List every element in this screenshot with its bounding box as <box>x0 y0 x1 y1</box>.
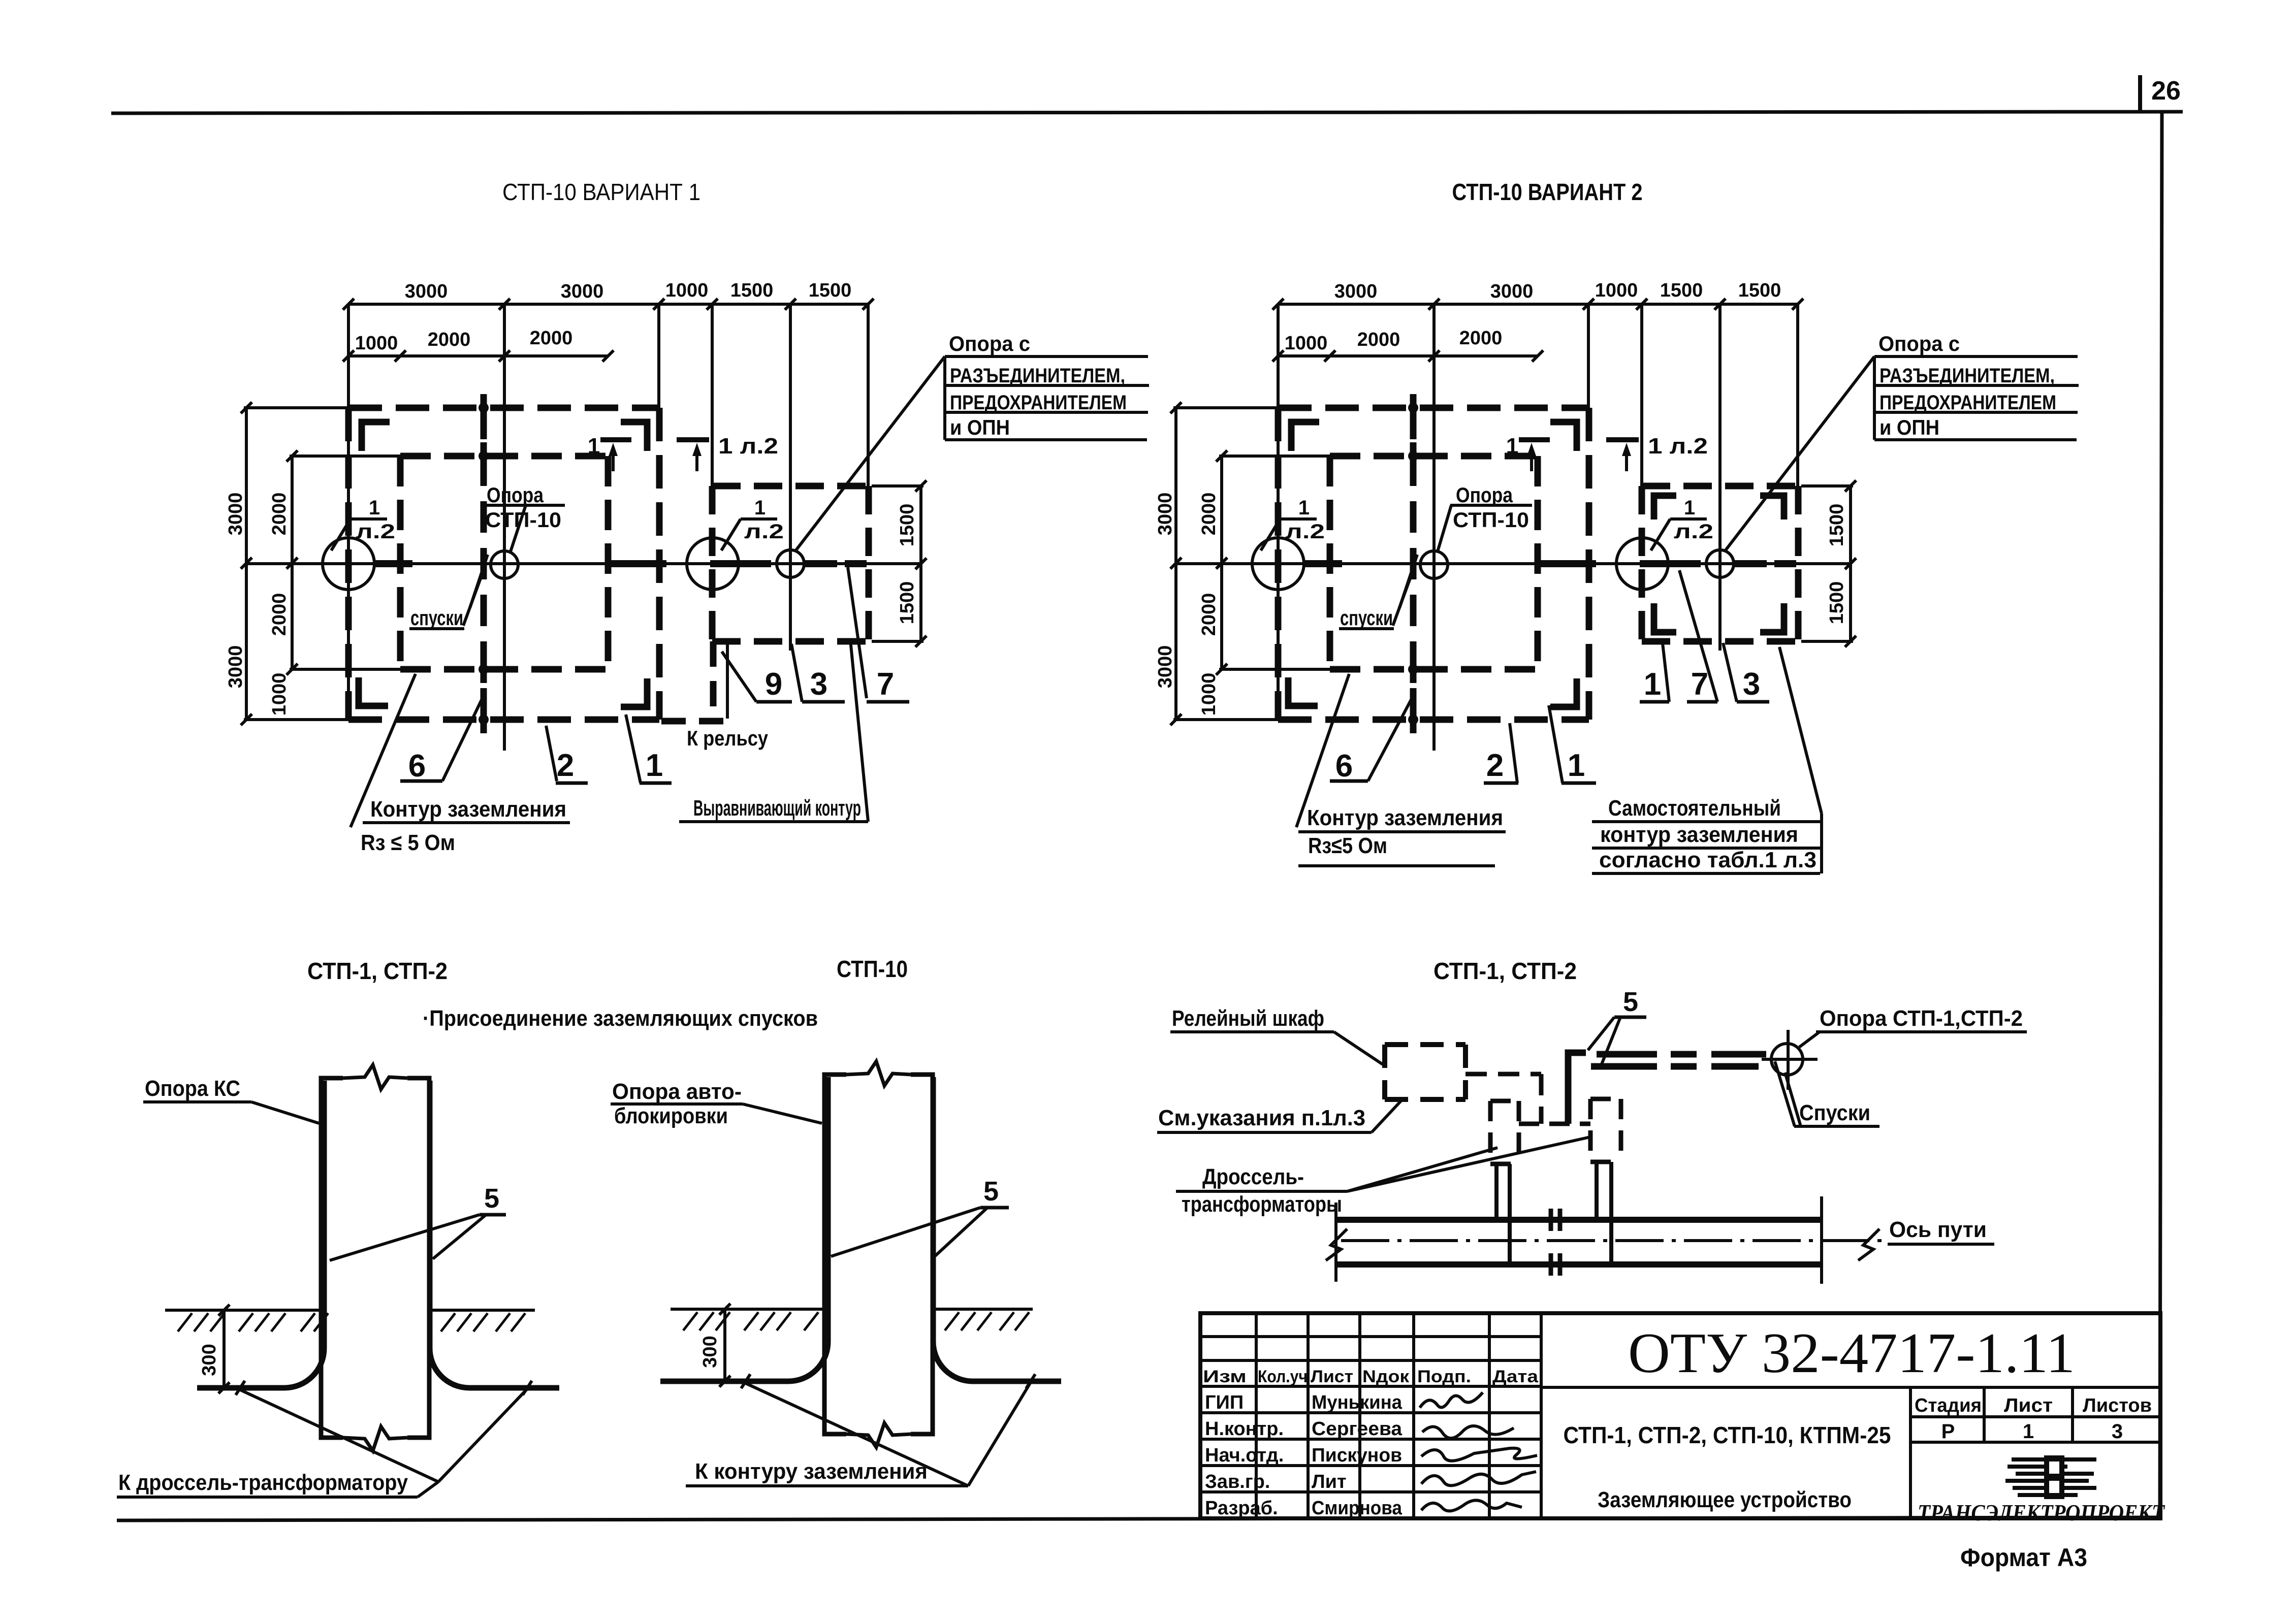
svg-text:1500: 1500 <box>730 280 774 301</box>
svg-text:2000: 2000 <box>1357 329 1400 350</box>
svg-text:1500: 1500 <box>1826 581 1847 625</box>
svg-text:2000: 2000 <box>269 593 290 636</box>
v1 junction dot R2 bottom <box>479 664 489 674</box>
svg-text:Релейный шкаф: Релейный шкаф <box>1172 1006 1324 1031</box>
v1 leader Vyravnivayushchiy kontur <box>850 640 868 822</box>
v1 right dim line 1500/1500 <box>919 486 922 641</box>
left underground conductor + descent wire (left) <box>197 1081 324 1388</box>
leader Drossel a <box>1347 1148 1498 1191</box>
v2 junction dot R2 bottom <box>1408 664 1418 674</box>
v2 underline kontur 2 <box>1592 847 1822 850</box>
svg-text:1000: 1000 <box>1595 280 1638 301</box>
thick dashed conductor run 2 <box>1591 1063 1657 1070</box>
svg-text:Опора: Опора <box>1456 483 1513 507</box>
v1 ext line bottom <box>244 718 358 721</box>
leader Opora KS <box>251 1102 319 1123</box>
svg-text:1: 1 <box>1568 748 1585 783</box>
svg-text:2: 2 <box>1486 748 1504 783</box>
v1 box underline 2 <box>945 384 1149 387</box>
scheme underline 5 <box>1614 1016 1646 1019</box>
v2 underline soglasno <box>1592 872 1820 875</box>
choke transformer box 1 <box>1490 1099 1519 1103</box>
center conductor tick b <box>1026 1374 1035 1388</box>
v1 box left edge <box>943 356 946 440</box>
svg-text:7: 7 <box>877 667 894 702</box>
sheet right border line <box>2160 112 2162 1518</box>
svg-text:1: 1 <box>1506 434 1518 459</box>
v2 underline 7 <box>1687 700 1717 704</box>
v2 center axis line V2 <box>1432 304 1436 751</box>
v1 extension line V4 <box>711 304 714 489</box>
v2 box underline 2 <box>1874 384 2079 387</box>
svg-text:1: 1 <box>646 748 663 783</box>
svg-text:СТП-1, СТП-2: СТП-1, СТП-2 <box>1433 958 1577 984</box>
v2 box right edge <box>1820 814 1823 873</box>
v2 box leader to disconnector pole <box>1725 356 1874 551</box>
v1 box underline 4 <box>945 438 1147 441</box>
v2 thick jumper right of disconnector b <box>1774 560 1796 567</box>
svg-text:2000: 2000 <box>530 328 573 349</box>
underline Opora STP-1 STP-2 <box>1816 1030 2027 1033</box>
pole circle STP-1 STP-2 <box>1771 1044 1803 1075</box>
left pole underline 5 <box>480 1213 506 1217</box>
v2 section mark A bar <box>1519 437 1550 442</box>
v2 underline 3 <box>1737 700 1769 704</box>
svg-text:согласно табл.1 л.3: согласно табл.1 л.3 <box>1599 848 1817 872</box>
thick ground conductor L-corner <box>1568 1053 1586 1124</box>
v2 underline 6 <box>1330 779 1368 783</box>
v2 right ext top <box>1801 484 1853 488</box>
sheet top border line <box>111 112 2183 113</box>
svg-text:и ОПН: и ОПН <box>1879 415 1939 439</box>
svg-text:·Присоединение заземляющих с: ·Присоединение заземляющих спусков <box>423 1006 818 1031</box>
svg-text:Лист: Лист <box>2004 1395 2053 1416</box>
v2 underline 2 <box>1484 782 1518 785</box>
v1 junction dot R1 bottom <box>479 714 489 725</box>
svg-text:Ось пути: Ось пути <box>1889 1217 1987 1242</box>
svg-text:1000: 1000 <box>269 673 290 716</box>
v1 spuski leader b <box>463 569 484 626</box>
title block left table horizontals <box>1200 1335 1541 1338</box>
v2 pole circle STP-10 <box>1420 551 1448 578</box>
svg-text:Изм: Изм <box>1203 1367 1247 1386</box>
v1 box underline 1 <box>945 355 1148 358</box>
svg-text:Мунькина: Мунькина <box>1312 1392 1403 1413</box>
v1 underline 6 <box>400 779 442 783</box>
center ground hatching <box>683 1312 697 1330</box>
v2 underline spuski <box>1339 627 1394 630</box>
v2 extension line V3 <box>1587 304 1590 412</box>
v2 box underline 1 <box>1874 355 2078 358</box>
svg-text:2000: 2000 <box>1198 593 1220 636</box>
v1 right ext bottom <box>872 640 923 643</box>
v1 pole circle STP-10 <box>491 551 518 578</box>
underline Opora KS <box>143 1100 251 1103</box>
v1 leader 1 <box>626 714 641 783</box>
centerline break mark left <box>1326 1229 1347 1260</box>
underline Os puti <box>1888 1243 1994 1246</box>
v1 corner electrode mark top-right <box>621 422 647 451</box>
dashed wire down <box>1539 1074 1544 1124</box>
v1 underline 7 <box>867 700 909 704</box>
v2 dimension line 1000-2000-2000 <box>1278 354 1538 358</box>
title block left table verticals <box>1255 1313 1258 1518</box>
svg-text:Лит: Лит <box>1312 1471 1347 1492</box>
center underground conductor + descent wire (left) <box>660 1077 828 1381</box>
svg-text:СТП-10 ВАРИАНТ 1: СТП-10 ВАРИАНТ 1 <box>502 179 700 205</box>
svg-text:л.2: л.2 <box>356 521 395 543</box>
v1 thick jumper across R2/R1 right edges <box>611 560 666 567</box>
stadiya/list divider 1 <box>1983 1387 1986 1442</box>
v2 junction dot R1 top <box>1408 403 1418 413</box>
leader Sm.ukazaniya <box>1372 1101 1401 1132</box>
v2 right ext bottom <box>1801 640 1853 643</box>
svg-text:Выравнивающий контур: Выравнивающий контур <box>693 796 861 821</box>
svg-text:ПРЕДОХРАНИТЕЛЕМ: ПРЕДОХРАНИТЕЛЕМ <box>1879 392 2056 414</box>
center pole underline 5 <box>980 1206 1009 1210</box>
v2 small-square corner mark TR <box>1760 496 1784 519</box>
v1 section mark A arrow <box>609 443 618 456</box>
svg-text:1: 1 <box>369 497 380 519</box>
svg-text:3: 3 <box>2112 1420 2123 1443</box>
v2 dimension line 3000-3000-1000-1500-1500 <box>1278 303 1798 306</box>
dashed wire from relay box <box>1465 1072 1541 1077</box>
relay cabinet (dashed box) <box>1385 1042 1465 1047</box>
v2 ext line 2000 top <box>1219 454 1331 458</box>
v1 ground descent conductor (spuski) <box>481 408 487 720</box>
v1 pole circle with disconnector <box>777 550 804 577</box>
svg-text:Лист: Лист <box>1311 1367 1353 1386</box>
svg-text:3000: 3000 <box>1155 645 1176 689</box>
v1 section mark B arrow <box>692 443 702 456</box>
v1 ext line 2000 top <box>290 454 401 458</box>
center bottom break mark <box>846 1423 911 1447</box>
v1 small contour square (dashed) <box>712 483 869 490</box>
v2 ext line bottom <box>1173 718 1288 721</box>
v2 ext line 2000 bottom <box>1219 668 1331 671</box>
v2 junction dot R1 bottom <box>1408 714 1418 725</box>
svg-text:Nдок: Nдок <box>1362 1367 1410 1386</box>
svg-text:спуски: спуски <box>1340 606 1393 630</box>
leader Spuski b <box>1785 1073 1801 1126</box>
v1 rail connection conductor a <box>710 641 717 719</box>
v2 horizontal centerline axis <box>1176 562 1851 565</box>
svg-text:Стадия: Стадия <box>1915 1395 1982 1416</box>
svg-text:СТП-10 ВАРИАНТ 2: СТП-10 ВАРИАНТ 2 <box>1452 179 1643 205</box>
svg-text:Самостоятельный: Самостоятельный <box>1608 796 1781 821</box>
v2 underline Samostoyatelnyi <box>1592 820 1822 823</box>
svg-text:СТП-10: СТП-10 <box>1453 508 1529 532</box>
svg-text:Нач.отд.: Нач.отд. <box>1205 1445 1284 1466</box>
v2 underline 1 (right) <box>1640 700 1669 704</box>
leader K drossel a <box>240 1390 438 1482</box>
svg-text:Опора с: Опора с <box>949 332 1030 355</box>
left pole leader 5 a <box>330 1215 480 1260</box>
svg-text:1: 1 <box>588 434 600 459</box>
svg-text:1 л.2: 1 л.2 <box>1648 434 1708 459</box>
choke 1 lead to bottom rail <box>1508 1164 1512 1262</box>
v1 thick jumper right of disconnector a <box>805 560 837 567</box>
top rail <box>1336 1217 1822 1223</box>
v2 section mark B bar <box>1606 437 1639 442</box>
svg-text:Rз≤5 Ом: Rз≤5 Ом <box>1308 833 1387 858</box>
underline K drossel-transformatoru <box>117 1496 418 1499</box>
v1 ext line top <box>244 406 353 409</box>
stadiya/list divider 2 <box>2071 1387 2074 1442</box>
underline Spuski <box>1794 1125 1879 1128</box>
v1 thick jumper right of disconnector b <box>845 560 867 567</box>
v2 underline 1 <box>1562 782 1596 785</box>
svg-text:Разраб.: Разраб. <box>1205 1498 1278 1519</box>
v1 flag diagonal right <box>721 519 741 550</box>
v1 corner electrode mark bottom-right <box>621 678 647 707</box>
rail right end bar <box>1820 1196 1823 1284</box>
svg-text:контур заземления: контур заземления <box>1600 822 1798 847</box>
title block outer frame <box>1200 1313 2160 1518</box>
scheme leader 5 b <box>1601 1017 1620 1065</box>
v2 underline Kontur zazemleniya <box>1298 830 1506 833</box>
svg-text:Дроссель-: Дроссель- <box>1202 1164 1304 1189</box>
v2 corner electrode mark bottom-right <box>1550 678 1577 707</box>
svg-text:1: 1 <box>1644 667 1661 702</box>
v1 junction dot R2 top <box>479 451 489 461</box>
svg-text:Опора СТП-1,СТП-2: Опора СТП-1,СТП-2 <box>1820 1006 2023 1031</box>
v1 spuski crossing solid segment y=898 <box>481 442 487 470</box>
left ground line (left part) <box>165 1309 321 1312</box>
v1 extension line V6 <box>867 304 870 489</box>
v2 spuski leader b <box>1393 569 1414 626</box>
svg-text:ПРЕДОХРАНИТЕЛЕМ: ПРЕДОХРАНИТЕЛЕМ <box>950 392 1127 414</box>
v1 flag diagonal left <box>331 519 351 550</box>
v2 thick jumper across R2/R1 right edges <box>1541 560 1596 567</box>
v1 left dim line 2000/2000/1000 <box>291 456 294 669</box>
v1 center axis line V2 <box>503 304 506 751</box>
svg-text:6: 6 <box>1335 749 1353 784</box>
v1 leader 2 <box>546 726 557 781</box>
leader K drossel b <box>438 1389 527 1482</box>
v1 leader Opora STP-10 <box>511 505 526 551</box>
svg-text:1000: 1000 <box>1285 333 1328 354</box>
track centerline (dash-dot) <box>1341 1239 1886 1242</box>
center underground conductor + descent wire (right) <box>933 1077 1061 1381</box>
v2 small-square corner mark BR <box>1760 603 1784 632</box>
v1 underline Vyravnivayushchiy kontur <box>679 820 868 823</box>
svg-text:Rз ≤ 5 Ом: Rз ≤ 5 Ом <box>361 830 455 855</box>
svg-text:Опора: Опора <box>487 483 544 507</box>
v1 left dim line 3000/3000 <box>245 408 248 720</box>
v1 right ext top <box>872 484 923 488</box>
left conductor tick b <box>523 1381 532 1395</box>
svg-text:3: 3 <box>810 667 827 702</box>
stadiya header underline <box>1910 1415 2160 1418</box>
svg-text:Опора с: Опора с <box>1878 332 1960 355</box>
v2 leader 6 <box>1368 698 1412 781</box>
v2 spuski crossing solid segment y=898 <box>1410 442 1417 470</box>
v1 underline 2 <box>556 782 588 785</box>
svg-text:5: 5 <box>983 1176 999 1207</box>
center pole leader 5 b <box>934 1208 987 1257</box>
v2 corner electrode mark bottom-left <box>1288 677 1318 706</box>
leader stem K drossel <box>418 1482 438 1497</box>
center conductor tick a <box>741 1374 750 1388</box>
svg-text:См.указания п.1л.3: См.указания п.1л.3 <box>1158 1106 1365 1130</box>
v1 flag line right circle <box>741 517 777 521</box>
v2 thick jumper across R2 left edge <box>1304 560 1342 567</box>
svg-text:СТП-1, СТП-2: СТП-1, СТП-2 <box>307 958 448 984</box>
leader Opora STP-1 STP-2 <box>1799 1032 1820 1047</box>
v2 outer equalizing contour R1 (dashed) <box>1278 405 1589 411</box>
choke 2 lead to top rail <box>1595 1162 1599 1218</box>
v2 section mark B arrow <box>1622 443 1631 456</box>
svg-text:9: 9 <box>765 667 782 702</box>
svg-text:Подп.: Подп. <box>1417 1367 1471 1386</box>
svg-text:26: 26 <box>2151 76 2181 106</box>
center ground line (left part) <box>671 1308 824 1311</box>
svg-text:1500: 1500 <box>1738 280 1781 301</box>
v1 extension line V1 <box>347 304 350 720</box>
v2 small contour square (dashed) <box>1642 483 1798 490</box>
choke 1 lead to top rail <box>1494 1164 1499 1218</box>
v1 pole axis line V5 <box>789 304 792 651</box>
v2 underline Rz <box>1298 864 1495 867</box>
v2 leader 3 <box>1723 643 1737 702</box>
v1 section mark A bar <box>600 437 631 442</box>
v1 dimension line 3000-3000-1000-1500-1500 <box>348 303 868 306</box>
svg-text:РАЗЪЕДИНИТЕЛЕМ,: РАЗЪЕДИНИТЕЛЕМ, <box>950 365 1125 387</box>
svg-text:К контуру заземления: К контуру заземления <box>695 1459 928 1484</box>
svg-text:Опора авто-: Опора авто- <box>612 1079 742 1104</box>
v2 thick jumper big-to-small circle <box>1640 560 1701 567</box>
TRANSELEKTROPROEKT logo emblem <box>2012 1457 2096 1461</box>
left ground line (right part) <box>430 1309 535 1312</box>
underline K konturu <box>686 1484 968 1487</box>
v2 extension line V1 <box>1277 304 1280 720</box>
svg-text:ОТУ 32-4717-1.11: ОТУ 32-4717-1.11 <box>1628 1322 2075 1385</box>
v1 thick jumper across R2 left edge <box>374 560 412 567</box>
v1 spuski crossing solid segment y=1318 <box>481 656 487 683</box>
svg-text:л.2: л.2 <box>744 521 784 543</box>
svg-text:300: 300 <box>699 1336 721 1368</box>
thick dashed conductor run 1 <box>1597 1051 1657 1058</box>
svg-text:1 л.2: 1 л.2 <box>718 434 778 459</box>
v1 underline 3 <box>802 700 845 704</box>
page number tick <box>2138 75 2142 112</box>
rail left end bar <box>1334 1203 1337 1282</box>
v2 extension line V6 <box>1796 304 1799 489</box>
svg-text:Н.контр.: Н.контр. <box>1205 1418 1284 1440</box>
left bottom break mark <box>343 1426 407 1451</box>
left dim 300 line <box>222 1310 226 1389</box>
svg-text:СТП-10: СТП-10 <box>837 956 908 982</box>
svg-text:6: 6 <box>408 749 426 784</box>
svg-text:Дата: Дата <box>1492 1367 1539 1386</box>
sheet bottom border line <box>117 1517 2160 1520</box>
svg-text:ГИП: ГИП <box>1205 1392 1244 1413</box>
v2 corner electrode mark top-right <box>1550 422 1577 451</box>
choke transformer box 2 <box>1590 1097 1621 1101</box>
v2 pole circle with disconnector <box>1706 550 1734 577</box>
v2 underline Opora STP-10 <box>1450 504 1532 507</box>
underline Opora avto <box>611 1102 743 1106</box>
left conductor tick a <box>236 1381 245 1395</box>
v2 flag line right circle <box>1670 517 1707 521</box>
v2 left dim line 3000/3000 <box>1174 408 1177 720</box>
v1 leader 3 <box>791 644 802 702</box>
v1 underline 1 <box>640 782 672 785</box>
svg-text:Контур заземления: Контур заземления <box>370 797 566 822</box>
insulating joints top rail <box>1549 1209 1553 1231</box>
v2 leader 1 <box>1549 705 1563 783</box>
leader Drossel b <box>1347 1136 1592 1191</box>
svg-text:Р: Р <box>1941 1420 1955 1443</box>
leader Opora avto <box>743 1104 822 1123</box>
svg-text:1000: 1000 <box>1198 673 1220 716</box>
svg-text:2: 2 <box>557 748 574 783</box>
svg-text:5: 5 <box>484 1183 499 1214</box>
v2 leader 1 (right) <box>1662 639 1669 702</box>
centerline break mark right <box>1858 1229 1879 1260</box>
v1 underline Kontur zazemleniya <box>363 821 570 824</box>
underline Sm.ukazaniya <box>1157 1131 1372 1134</box>
v1 corner electrode mark bottom-left <box>359 677 388 706</box>
v1 rail connection conductor b <box>726 641 729 719</box>
v1 flag line left circle <box>351 517 387 521</box>
v1 spuski leader a <box>470 555 488 608</box>
svg-text:1500: 1500 <box>809 280 852 301</box>
svg-text:3000: 3000 <box>225 493 246 536</box>
left ground hatching <box>178 1313 192 1331</box>
v2 pole circle on left edge <box>1252 538 1304 590</box>
v1 underline spuski <box>409 627 464 630</box>
svg-text:300: 300 <box>199 1344 220 1376</box>
center pole leader 5 a <box>831 1208 980 1256</box>
svg-text:Спуски: Спуски <box>1799 1100 1870 1125</box>
svg-text:Смирнова: Смирнова <box>1312 1498 1403 1519</box>
svg-text:3000: 3000 <box>1155 493 1176 536</box>
svg-text:1: 1 <box>754 497 766 519</box>
svg-text:7: 7 <box>1691 667 1708 702</box>
v2 extension line V4 <box>1640 304 1643 489</box>
leader K konturu a <box>746 1383 968 1486</box>
svg-text:1: 1 <box>1298 497 1310 519</box>
v1 spuski crossing solid segment y=803 <box>481 394 487 421</box>
v1 leader 7 <box>848 567 867 698</box>
svg-text:1000: 1000 <box>665 280 709 301</box>
svg-text:К рельсу: К рельсу <box>687 726 769 750</box>
v2 small-square corner mark TL <box>1654 496 1676 519</box>
v1 corner electrode mark top-left <box>362 422 390 451</box>
signatures (handwriting) <box>1420 1392 1483 1408</box>
svg-text:Сергеева: Сергеева <box>1312 1418 1403 1440</box>
svg-text:1000: 1000 <box>355 333 398 354</box>
stadiya row underline <box>1910 1441 2160 1444</box>
left underground conductor + descent wire (right) <box>430 1081 559 1388</box>
svg-text:3: 3 <box>1743 667 1760 702</box>
svg-text:2000: 2000 <box>269 493 290 536</box>
v1 box underline 3 <box>945 411 1148 414</box>
v1 leader kontur zazemleniya <box>351 674 416 827</box>
svg-text:3000: 3000 <box>1334 281 1378 302</box>
v1 horizontal centerline axis <box>246 562 921 565</box>
title block divider under number <box>1541 1386 2160 1389</box>
dashed connector between choke transformers <box>1519 1122 1590 1126</box>
v2 leader Opora STP-10 <box>1438 505 1451 551</box>
v2 leader 7 <box>1679 570 1717 702</box>
v2 ground descent conductor (spuski) <box>1410 408 1417 720</box>
bottom rail <box>1336 1261 1822 1268</box>
svg-text:3000: 3000 <box>405 281 448 302</box>
svg-text:л.2: л.2 <box>1285 521 1325 543</box>
